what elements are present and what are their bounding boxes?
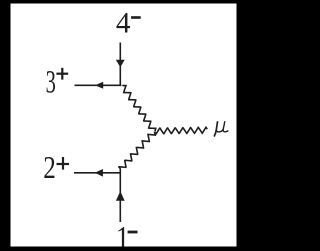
svg-text:4: 4 [116,7,131,40]
svg-text:1: 1 [116,220,129,251]
black edge strip right [237,0,250,251]
superscript minus of 4 [131,16,141,19]
black edge strip bottom [0,247,249,251]
superscript minus of 1 [128,231,138,234]
arrow on line 3 (pointing left) [95,82,103,89]
arrow on line 4 (pointing down) [116,60,125,68]
photon line: vertex to mu (right) [155,127,207,134]
arrow on line 1 (pointing up) [116,191,125,201]
wire: incoming fermion line 4 (vertical, top) [119,43,121,86]
superscript plus of 3 [56,68,68,80]
arrow on line 2 (pointing left) [95,169,103,177]
wire: outgoing fermion line 2 (horizontal, lower-left) [74,172,121,174]
photon line: vertex to bottom junction [119,132,155,169]
svg-text:3: 3 [46,64,56,101]
label mu (drawn as path, CM italic style) [214,121,228,136]
black edge strip left [0,0,11,251]
white figure area [11,4,237,247]
superscript plus of 2 [57,157,70,170]
svg-text:2: 2 [43,150,56,185]
photon line: top junction to vertex [122,86,155,132]
wire: outgoing fermion line 3 (horizontal, upper-left) [75,84,122,86]
black edge strip top [0,0,249,4]
wire: incoming fermion line 1 (vertical, bottom) [119,169,121,222]
black canvas background [0,0,249,251]
